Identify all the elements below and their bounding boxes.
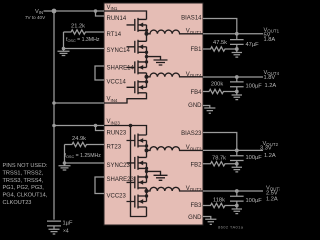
ground G7 [232,164,242,172]
node M4 source join [145,80,148,83]
svg-text:RT14: RT14 [107,32,122,38]
wire ground node ch23 [147,171,161,175]
svg-text:VOUT3: VOUT3 [186,186,202,192]
ground G4 [232,49,242,57]
resistor R_RT14 21.2k [64,30,105,34]
wire SHARE23-VCC23 bracket [95,177,104,194]
node junction VOUT2/BIAS23/C2 [235,149,239,153]
svg-text:200k: 200k [211,81,223,87]
node switch ch2 [145,148,149,152]
wire M3 drain to switch node [146,73,148,77]
svg-text:FB1: FB1 [190,47,202,53]
capacitor C4 100uF [230,77,244,92]
ground G9 [205,219,216,224]
transistor M5 ch2 top FET [127,134,147,151]
svg-text:1.8A: 1.8A [264,37,276,43]
svg-text:VOUT2: VOUT2 [186,145,202,151]
wire BIAS14 to VOUT1 [203,19,237,34]
node switch ch3 [145,189,149,193]
inductor L2 [147,147,204,151]
resistor R_RT23 24.9k [65,142,105,146]
inductor L1 [147,30,204,34]
transistor M2 ch1 sync FET [127,34,147,57]
inductor L4 [147,73,204,77]
ground G2 [59,163,71,170]
node VIN23 rail tap [129,124,133,128]
wire VOUT4 output [203,76,263,78]
svg-text:SYNC14: SYNC14 [107,48,131,54]
capacitor C1 47uF [230,34,244,49]
svg-text:VOUT4: VOUT4 [186,72,202,78]
svg-text:100µF: 100µF [246,155,263,161]
svg-text:21.2k: 21.2k [71,24,85,30]
svg-text:VOUT1: VOUT1 [186,29,202,35]
svg-text:1.8V: 1.8V [264,75,276,81]
wire SYNC14 to ground [64,48,105,50]
transistor M1 ch1 top FET [127,18,147,34]
svg-text:TRSS1, TRSS2,: TRSS1, TRSS2, [3,170,44,176]
svg-text:BIAS14: BIAS14 [181,15,202,21]
wire VIN23 branch [54,125,104,127]
op-amp U1 IC block body [104,3,203,225]
svg-text:SHARE23: SHARE23 [107,177,135,183]
ground internal G14 [154,60,168,65]
node junction VOUT4/C4 [235,75,239,79]
svg-text:100µF: 100µF [246,83,263,89]
wire SHARE14-VCC14 bracket [95,66,104,80]
wire ground node ch14 [147,57,161,60]
node junction VIN23/RUN23 [94,124,98,128]
svg-text:VIN23: VIN23 [107,119,121,125]
wire VIN23 rail to ch3 [131,126,147,217]
node M6 source join [145,167,148,170]
node M1 source join [145,29,148,32]
transistor M3 ch4 sync FET [127,57,147,75]
svg-text:3.3V: 3.3V [260,145,272,151]
wire SYNC23 to ground [65,162,105,164]
wire VIN23 internal rail [104,126,147,136]
svg-text:1.2A: 1.2A [266,197,278,203]
node junction SYNC14 ground [62,47,66,51]
svg-text:RUN23: RUN23 [107,130,127,136]
svg-text:7V to 40V: 7V to 40V [25,15,46,20]
node VIN terminal dot [52,9,57,14]
svg-text:1.2A: 1.2A [265,83,277,89]
svg-text:CLKOUT23: CLKOUT23 [3,200,32,206]
svg-text:78.7k: 78.7k [212,156,226,162]
svg-text:PG4, CLKOUT14,: PG4, CLKOUT14, [3,193,48,199]
svg-text:SYNC23: SYNC23 [107,163,131,169]
wire GND14 pin to ground [203,106,210,109]
wire M7 drain to switch node [146,188,148,191]
wire RT14 resistor to ground [63,32,65,49]
node junction FB2/C2 ground [235,162,239,166]
ground G8 [232,206,242,214]
svg-text:VIN4: VIN4 [107,97,118,103]
svg-text:TRSS3, TRSS4,: TRSS3, TRSS4, [3,178,44,184]
wire VIN rail vertical [53,11,55,220]
wire VOUT1 output [203,33,263,35]
ground internal G23 [154,175,168,180]
svg-text:1.2A: 1.2A [264,153,276,159]
svg-text:1µF: 1µF [63,221,73,227]
node switch ch1 [145,32,149,36]
node junction SYNC23 ground [63,161,67,165]
wire GND23 pin to ground [203,217,211,220]
node M3 source join [145,60,148,63]
wire RUN14 hook [96,11,105,16]
wire VOUT2 output [203,149,263,151]
wire M4 drain to VIN4 pin [104,93,147,103]
ground G1 [58,49,70,56]
node switch ch4 [145,75,149,79]
wire RT23 resistor to ground [64,145,66,164]
wire M8 drain to rail [146,207,148,217]
svg-text:SHARE14: SHARE14 [107,66,135,72]
ground G6 [204,108,215,113]
node M7 source join [145,175,148,178]
resistor R_FB2 78.7k [203,162,237,166]
svg-text:PINS NOT USED:: PINS NOT USED: [3,163,48,169]
svg-text:8602 TA01a: 8602 TA01a [218,225,244,230]
ground G3 [49,229,60,234]
node ground ch14 [145,55,148,58]
svg-text:PG1, PG2, PG3,: PG1, PG2, PG3, [3,185,45,191]
wire VOUT3 output [203,190,263,192]
svg-text:RT23: RT23 [107,144,122,150]
svg-text:GND: GND [188,215,202,221]
capacitor CIN 1uF plates [47,221,61,229]
node junction rail/VIN23 [52,124,56,128]
inductor L3 [147,187,204,191]
node M2 source join [145,51,148,54]
capacitor C3 100uF [230,191,244,206]
svg-text:24.9k: 24.9k [72,136,86,142]
svg-text:GND: GND [188,103,202,109]
svg-text:RUN14: RUN14 [107,16,127,22]
transistor M7 ch3 sync FET [127,171,147,189]
svg-text:47.5k: 47.5k [213,40,227,46]
node junction FB1/C1 ground [235,47,239,51]
resistor R_FB3 118k [203,203,237,207]
node junction rail/VIN4 [52,101,56,105]
wire BIAS23 to VOUT2 [203,133,237,151]
svg-text:FB2: FB2 [190,163,202,169]
node ground ch23 [145,170,148,173]
capacitor C2 100uF [230,150,244,163]
node junction VOUT3/C3 [235,189,239,193]
svg-text:FB3: FB3 [190,203,202,209]
ground G5 [232,92,242,100]
node M5 source join [145,144,148,147]
svg-text:VCC23: VCC23 [107,193,127,199]
node junction FB4/C4 ground [235,90,239,94]
transistor M6 ch2 sync FET [127,150,147,171]
svg-text:FB4: FB4 [190,90,202,96]
svg-text:VIN1: VIN1 [107,5,118,11]
svg-text:BIAS23: BIAS23 [181,131,202,137]
svg-text:47µF: 47µF [246,42,260,48]
svg-text:VCC14: VCC14 [107,80,127,86]
node VIN input wire [44,10,105,12]
resistor R_FB4 200k [203,89,237,93]
transistor M8 ch3 bottom FET [127,191,147,209]
wire RUN23 hook [96,126,105,131]
node junction VIN/RUN14 [94,9,98,13]
resistor R_FB1 47.5k [203,47,237,51]
wire VIN1 internal rail [104,11,147,19]
svg-text:118k: 118k [213,197,225,203]
transistor M4 ch4 bottom FET [127,77,147,95]
node junction VOUT1/BIAS14/C1 [235,32,239,36]
wire VIN4 branch [54,102,104,104]
svg-text:100µF: 100µF [246,198,263,204]
node M8 source join [145,194,148,197]
node junction FB3/C3 ground [235,204,239,208]
svg-text:×4: ×4 [63,229,69,235]
